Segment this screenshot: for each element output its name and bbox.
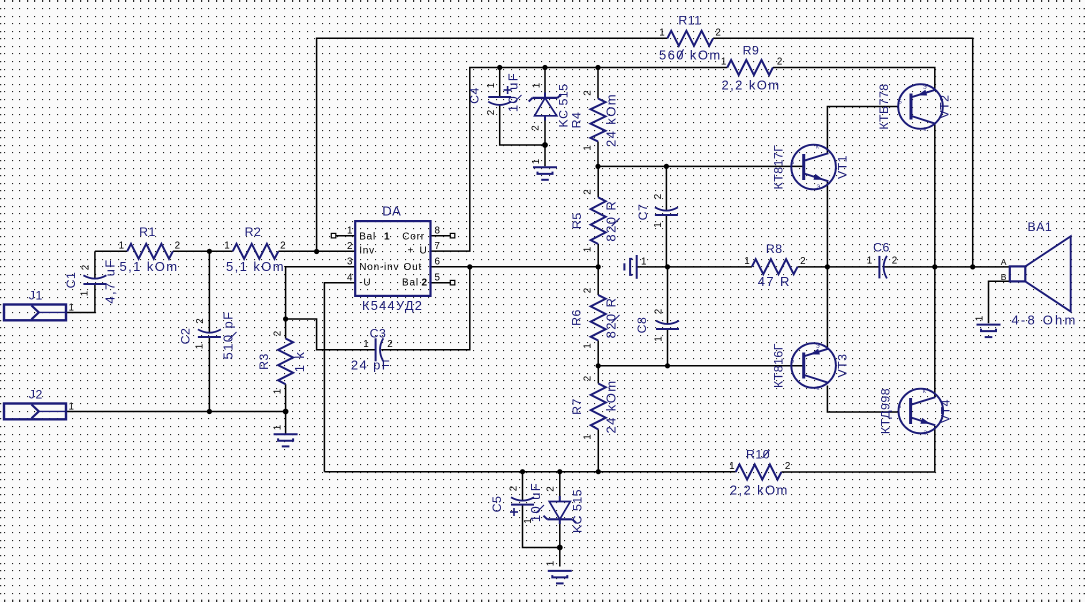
- junction node output/R11 feedback: [970, 264, 975, 269]
- svg-text:2: 2: [531, 125, 542, 130]
- resistor R11: [659, 14, 722, 63]
- svg-text:1: 1: [653, 222, 664, 227]
- svg-text:2: 2: [654, 309, 665, 314]
- junction node -U rail C5: [520, 469, 525, 474]
- svg-text:1: 1: [69, 303, 74, 314]
- junction node inverting input: [314, 249, 319, 254]
- svg-text:2: 2: [422, 277, 428, 288]
- capacitor C4 polarized: [468, 72, 521, 115]
- svg-text:B: B: [1001, 272, 1007, 282]
- wire R6: [597, 267, 599, 366]
- svg-text:1: 1: [224, 240, 229, 251]
- svg-text:1: 1: [583, 343, 594, 348]
- junction node R6/R7 VT3 base: [596, 363, 601, 368]
- wire VT1 collector to VT2 base: [827, 107, 899, 154]
- junction node +U rail C4: [497, 65, 502, 70]
- op-amp DA K544UD2: [331, 204, 455, 314]
- transistor VT1 KT817G npn: [772, 145, 850, 191]
- junction node ground/C7/C8/R8: [665, 264, 670, 269]
- capacitor C2: [179, 311, 236, 360]
- svg-text:1: 1: [744, 256, 749, 267]
- speaker BA1: [1001, 220, 1078, 328]
- wire zener VD1: [544, 68, 546, 167]
- svg-text:2: 2: [892, 256, 897, 267]
- resistor R3: [257, 331, 307, 394]
- svg-text:1: 1: [523, 518, 534, 523]
- svg-text:1: 1: [729, 461, 734, 472]
- svg-text:1: 1: [486, 83, 497, 88]
- wire J1 to C1: [66, 251, 95, 312]
- svg-text:2: 2: [486, 110, 497, 115]
- svg-text:2: 2: [785, 461, 790, 472]
- resistor R10: [729, 448, 790, 498]
- svg-text:1: 1: [721, 57, 726, 68]
- wire op-amp out row: [431, 266, 599, 268]
- capacitor C1: [64, 258, 118, 303]
- svg-text:1: 1: [273, 389, 284, 394]
- svg-text:2,2 kOm: 2,2 kOm: [730, 483, 789, 498]
- wire pin4 -U rail: [324, 283, 355, 472]
- svg-text:КТБ778: КТБ778: [877, 83, 891, 129]
- transistor VT3 KT816G pnp: [772, 343, 850, 392]
- svg-text:2: 2: [175, 240, 180, 251]
- svg-text:5,1 kOm: 5,1 kOm: [120, 259, 179, 274]
- svg-text:VT2: VT2: [938, 94, 952, 118]
- svg-text:A: A: [1001, 257, 1007, 267]
- svg-text:DA: DA: [382, 204, 401, 219]
- junction node +U rail zener: [542, 65, 547, 70]
- svg-text:C7: C7: [636, 204, 650, 221]
- svg-text:24 kOm: 24 kOm: [604, 93, 619, 147]
- capacitor C7: [636, 194, 678, 228]
- transistor VT4 KTD998 npn: [879, 388, 953, 437]
- svg-text:J2: J2: [29, 388, 43, 402]
- svg-text:R11: R11: [678, 14, 701, 28]
- svg-text:R2: R2: [245, 225, 262, 239]
- svg-text:1: 1: [583, 247, 594, 252]
- resistor R7: [570, 376, 619, 440]
- ground under zener KC515 bottom: [548, 571, 572, 584]
- wire VT2 collector / VT4 collector column: [934, 124, 936, 397]
- svg-text:2: 2: [273, 331, 284, 336]
- connector J1: [4, 289, 74, 321]
- svg-text:1: 1: [583, 434, 594, 439]
- svg-text:Non-inv: Non-inv: [359, 262, 399, 273]
- wire C5 branch: [523, 472, 560, 548]
- zener diode KC515 top: [529, 83, 571, 131]
- junction node R8/VT1/VT3 emitters: [825, 264, 830, 269]
- svg-text:R7: R7: [570, 398, 584, 415]
- wire zener VD2: [559, 472, 561, 567]
- svg-text:C4: C4: [468, 87, 482, 104]
- svg-text:2: 2: [387, 339, 392, 350]
- svg-text:R5: R5: [570, 212, 584, 229]
- svg-text:KC 515: KC 515: [557, 83, 571, 127]
- wire pin8 stub: [431, 235, 451, 237]
- svg-text:2: 2: [800, 256, 805, 267]
- junction node out/C3 riser: [467, 264, 472, 269]
- svg-text:1: 1: [69, 402, 74, 413]
- svg-text:24 kOm: 24 kOm: [604, 380, 619, 434]
- ground under speaker: [977, 325, 1001, 338]
- ground mid rail pointing left: [624, 255, 636, 279]
- wire C3 branch: [286, 267, 470, 350]
- wire C6 row to speaker: [827, 266, 1009, 268]
- resistor R2: [224, 225, 285, 274]
- wire -U bottom rail: [324, 426, 934, 472]
- resistor R4: [570, 90, 619, 150]
- svg-text:1: 1: [384, 232, 390, 243]
- svg-text:1: 1: [195, 344, 206, 349]
- svg-text:1: 1: [659, 27, 664, 38]
- svg-text:1: 1: [273, 425, 284, 430]
- svg-text:Э: Э: [923, 85, 927, 91]
- svg-text:R6: R6: [570, 309, 584, 326]
- wire VT1 emitter / VT3 emitter column: [826, 182, 828, 349]
- wire R4 drop: [597, 68, 599, 167]
- svg-text:R9: R9: [743, 43, 760, 57]
- capacitor C3: [351, 327, 393, 373]
- svg-text:-U: -U: [359, 277, 371, 288]
- svg-text:1 k: 1 k: [292, 351, 307, 373]
- svg-text:1: 1: [531, 159, 542, 164]
- svg-text:VT1: VT1: [836, 155, 850, 179]
- junction node R3/J2/ground: [283, 409, 289, 415]
- wire R11 right to output node: [713, 38, 973, 267]
- svg-text:C2: C2: [179, 328, 193, 345]
- wire C2 branch: [208, 251, 210, 411]
- svg-text:3: 3: [347, 257, 353, 268]
- svg-text:C8: C8: [635, 317, 649, 334]
- resistor R6: [570, 288, 619, 349]
- wire R11 feedback left riser: [317, 38, 668, 251]
- svg-text:Bal: Bal: [359, 232, 376, 243]
- svg-text:BA1: BA1: [1028, 220, 1053, 234]
- svg-text:R8: R8: [766, 242, 783, 256]
- junction node C5/zener2: [557, 545, 563, 551]
- svg-text:1: 1: [532, 83, 543, 88]
- svg-text:R3: R3: [257, 353, 271, 370]
- wire R7: [597, 366, 599, 472]
- svg-text:7: 7: [435, 241, 440, 252]
- svg-text:C6: C6: [873, 241, 890, 255]
- svg-text:2,2 kOm: 2,2 kOm: [722, 78, 781, 93]
- svg-text:6: 6: [435, 257, 441, 268]
- svg-text:Bal: Bal: [402, 277, 419, 288]
- svg-text:2: 2: [583, 376, 594, 381]
- resistor R8: [744, 242, 805, 289]
- svg-text:C1: C1: [64, 272, 78, 289]
- svg-text:U: U: [420, 245, 428, 256]
- resistor R1: [119, 225, 180, 274]
- ground under R3: [274, 434, 298, 446]
- op-amp pin8 pad: [450, 233, 455, 238]
- svg-text:2: 2: [81, 265, 92, 270]
- svg-text:Э: Э: [924, 431, 928, 437]
- svg-text:К: К: [817, 386, 820, 392]
- wire VT1 base row: [598, 165, 803, 167]
- wire C8: [667, 267, 669, 366]
- capacitor C8: [635, 309, 679, 342]
- svg-text:КТ817Г: КТ817Г: [772, 145, 786, 190]
- svg-text:Corr: Corr: [402, 232, 425, 243]
- wire pin5 stub: [431, 282, 451, 284]
- svg-text:1: 1: [347, 226, 352, 237]
- svg-text:KC 515: KC 515: [571, 489, 585, 533]
- junction node R4/R5 VT1 base: [595, 164, 600, 169]
- svg-text:47 R: 47 R: [758, 274, 791, 289]
- svg-text:2: 2: [583, 189, 594, 194]
- svg-text:2: 2: [195, 318, 206, 323]
- wire C4 drop: [500, 68, 545, 146]
- svg-text:+: +: [408, 245, 415, 256]
- svg-text:C5: C5: [490, 496, 504, 513]
- slashed zero marks: [229, 49, 770, 513]
- junction node R1/R2/C2: [207, 249, 212, 254]
- svg-text:R4: R4: [570, 112, 584, 129]
- svg-text:К544УД2: К544УД2: [362, 298, 423, 313]
- capacitor C6: [867, 241, 897, 279]
- svg-text:КТ816Г: КТ816Г: [772, 343, 786, 388]
- svg-text:1: 1: [119, 240, 124, 251]
- svg-text:4: 4: [347, 272, 353, 283]
- resistor R9: [721, 43, 782, 92]
- wire R5: [597, 166, 599, 267]
- op-amp pin1 pad: [331, 233, 336, 238]
- junction node -U rail R7: [596, 469, 601, 474]
- svg-text:К: К: [816, 145, 819, 151]
- junction node C8 bottom: [665, 363, 670, 368]
- wire pin1 stub: [336, 235, 355, 237]
- wire R9 right to VT2 emitter: [773, 68, 935, 91]
- svg-text:2: 2: [546, 486, 557, 491]
- wire VT3 collector to VT4 base: [827, 386, 899, 413]
- svg-text:Out: Out: [404, 262, 423, 273]
- svg-text:R10: R10: [746, 448, 770, 462]
- junction node VT2/VT4 collectors: [932, 264, 937, 269]
- svg-text:К: К: [923, 389, 926, 395]
- junction node +U rail R4: [595, 65, 600, 70]
- svg-text:5: 5: [435, 272, 441, 283]
- svg-text:R1: R1: [139, 225, 156, 239]
- junction node out/R5/R6: [596, 264, 601, 269]
- capacitor C5 polarized: [490, 482, 543, 524]
- wire mid ground to node: [637, 266, 668, 268]
- svg-text:1: 1: [654, 336, 665, 341]
- svg-text:2: 2: [280, 240, 285, 251]
- wire +U rail from pin7: [431, 68, 728, 252]
- transistor VT2 KTB778 pnp: [877, 83, 952, 133]
- svg-text:10 uF: 10 uF: [528, 482, 543, 522]
- junction node C4/zener anode: [542, 142, 548, 148]
- svg-text:1: 1: [641, 257, 646, 268]
- svg-text:10 uF: 10 uF: [506, 72, 521, 112]
- svg-text:Э: Э: [816, 344, 820, 350]
- svg-text:2: 2: [653, 194, 664, 199]
- svg-text:2: 2: [583, 90, 594, 95]
- resistor R5: [570, 189, 619, 252]
- svg-text:VT3: VT3: [836, 353, 850, 377]
- svg-text:Э: Э: [817, 185, 821, 191]
- svg-text:C3: C3: [370, 327, 387, 341]
- svg-text:5,1 kOm: 5,1 kOm: [226, 259, 285, 274]
- svg-text:2: 2: [347, 241, 352, 252]
- svg-text:4,7 uF: 4,7 uF: [103, 258, 118, 303]
- svg-text:8: 8: [435, 226, 441, 237]
- ground under zener KC515 top: [533, 167, 557, 180]
- svg-text:1: 1: [546, 561, 557, 566]
- svg-text:Inv: Inv: [359, 245, 375, 256]
- svg-text:560 kOm: 560 kOm: [659, 47, 722, 62]
- svg-text:КТД998: КТД998: [879, 388, 893, 434]
- junction node C2/J2 row: [207, 409, 212, 414]
- connector J2: [4, 388, 74, 420]
- zener diode KC515 bottom: [544, 486, 585, 566]
- svg-text:1: 1: [80, 291, 91, 296]
- svg-text:2: 2: [777, 57, 782, 68]
- wire R3 connections: [285, 319, 287, 412]
- op-amp pin5 pad: [450, 280, 455, 285]
- wire C7: [665, 166, 667, 267]
- wire R8 row: [668, 266, 828, 268]
- junction node -U rail zener2: [557, 469, 562, 474]
- svg-text:2: 2: [509, 486, 520, 491]
- wire J2 row: [66, 412, 286, 434]
- wire pin3 non-inv: [286, 267, 356, 319]
- svg-text:К: К: [924, 127, 927, 133]
- svg-text:2: 2: [583, 288, 594, 293]
- junction node non-inv/R3/C3: [283, 316, 288, 321]
- svg-text:VT4: VT4: [939, 399, 953, 423]
- junction node C7 top: [664, 164, 669, 169]
- svg-text:1: 1: [363, 339, 368, 350]
- svg-text:1: 1: [583, 145, 594, 150]
- wire R1 row input: [95, 250, 355, 252]
- wire VT3 base row: [598, 365, 803, 367]
- svg-text:1: 1: [975, 316, 986, 321]
- wire speaker B to ground: [989, 281, 1010, 323]
- svg-text:24 pF: 24 pF: [351, 358, 391, 373]
- svg-text:1: 1: [867, 256, 872, 267]
- svg-text:J1: J1: [29, 289, 43, 303]
- svg-text:2: 2: [715, 27, 720, 38]
- svg-text:4-8 Ohm: 4-8 Ohm: [1012, 313, 1078, 328]
